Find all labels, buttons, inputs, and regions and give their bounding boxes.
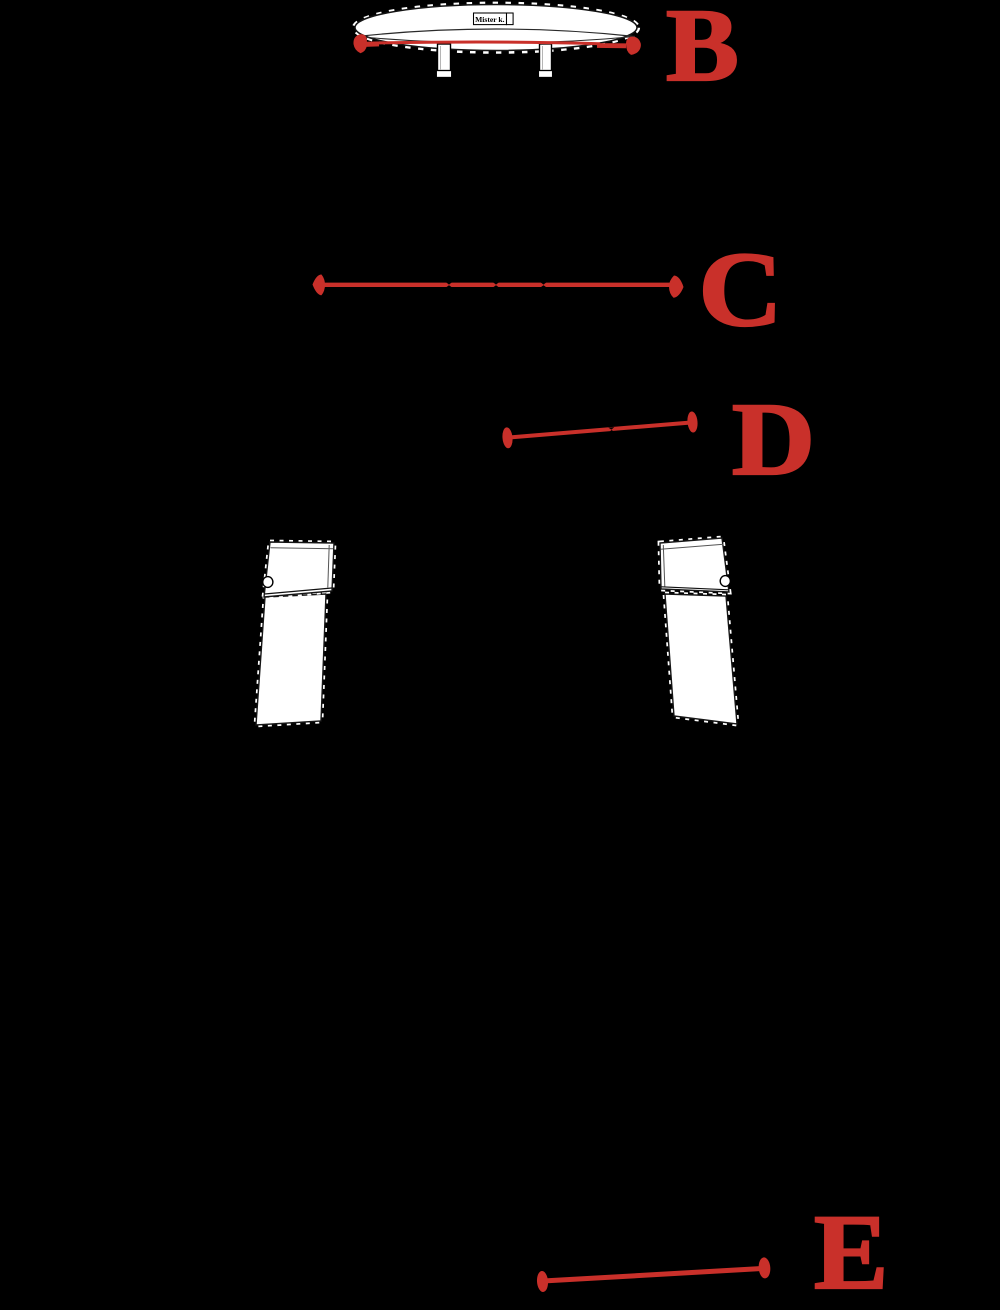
label small box <box>507 13 514 25</box>
pocket left button <box>263 577 273 588</box>
arrow E line <box>543 1269 762 1282</box>
letter C <box>698 232 782 349</box>
arrow B left head <box>353 34 367 53</box>
arrow B right head <box>626 37 641 55</box>
belt loop left <box>436 44 451 78</box>
letter E <box>814 1193 888 1310</box>
svg-text:B: B <box>666 0 739 103</box>
arrow B line thick tail right <box>597 43 626 48</box>
arrow D line <box>509 423 691 438</box>
arrow D right head <box>687 411 699 433</box>
pocket right body <box>665 594 737 724</box>
pocket right button <box>720 576 730 587</box>
pocket left body <box>256 594 326 725</box>
arrow B line <box>366 42 600 44</box>
arrow C left head <box>313 275 326 296</box>
waistband stitch dashes <box>353 3 639 53</box>
letter B <box>666 0 739 103</box>
label Mister k. box <box>474 13 507 25</box>
arrow E right head <box>758 1257 771 1279</box>
svg-text:C: C <box>698 232 782 349</box>
arrow B line thick tail left <box>365 42 379 47</box>
letter D <box>732 381 815 497</box>
arrow E left head <box>536 1271 548 1293</box>
pocket right flap <box>660 538 729 592</box>
arrow D pinch notch <box>608 427 614 432</box>
waistband outer ellipse <box>355 5 637 51</box>
arrow C right head <box>669 276 684 298</box>
svg-text:D: D <box>732 381 815 497</box>
arrow D left head <box>502 427 514 449</box>
arrow C line <box>318 283 675 287</box>
waistband inner rim bottom arc <box>357 37 635 44</box>
svg-text:Mister k.: Mister k. <box>475 15 504 24</box>
svg-text:E: E <box>814 1193 888 1310</box>
pocket left flap <box>264 542 334 597</box>
arrow C pinch notches <box>446 282 547 287</box>
belt loop right <box>538 44 552 78</box>
waistband inner rim top arc <box>357 29 635 37</box>
